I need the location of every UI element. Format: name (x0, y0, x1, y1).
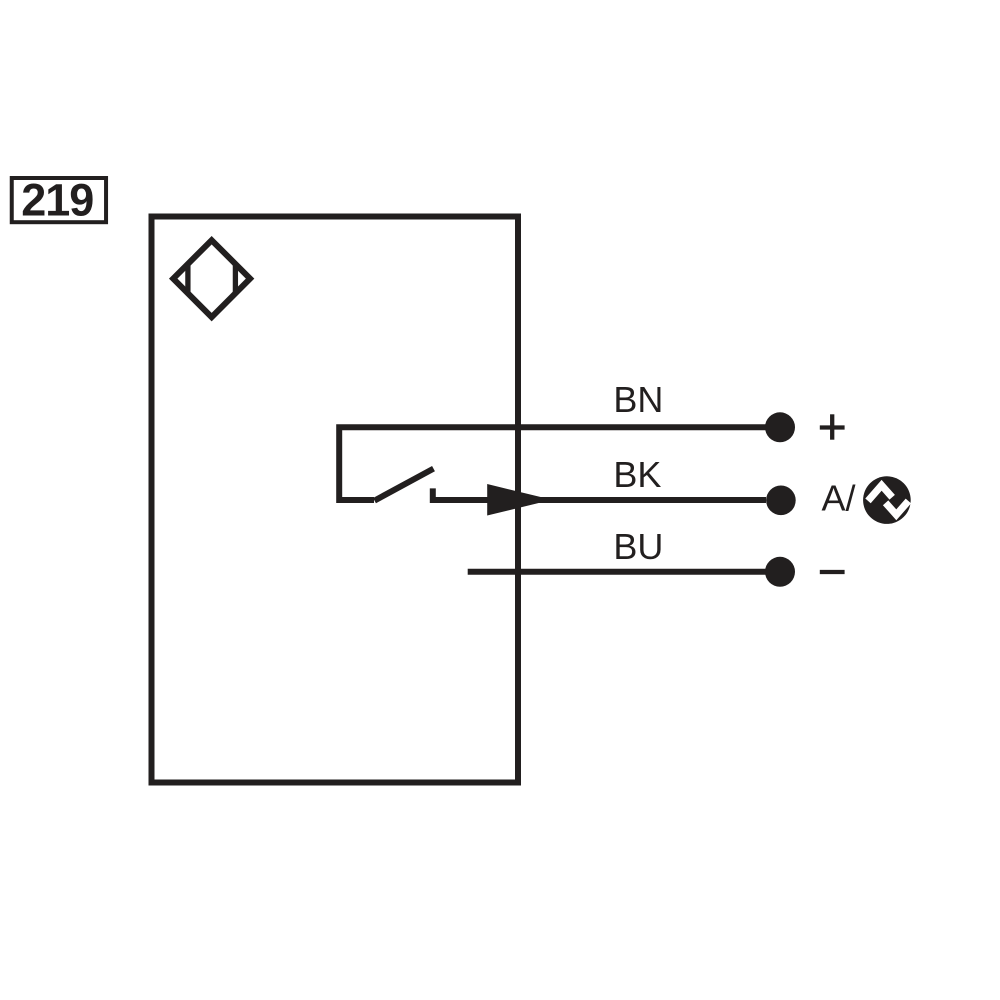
terminal dot BU (765, 557, 795, 587)
terminal dot BN (765, 412, 795, 442)
svg-text:BU: BU (613, 526, 663, 567)
diamond right bar (233, 264, 238, 294)
wire BN (brown) with corner down to switch pivot (339, 427, 766, 500)
sensor body rectangle (152, 217, 519, 783)
terminal dot BK (766, 486, 796, 516)
svg-text:A/: A/ (822, 478, 856, 519)
svg-text:219: 219 (21, 175, 93, 226)
svg-text:BN: BN (613, 379, 663, 420)
switch blade (NO contact, open) (375, 469, 434, 501)
output arrowhead (487, 484, 552, 516)
wire BU (blue) (468, 569, 766, 575)
antivalent output icon (circle with up/down chevrons) (863, 476, 911, 524)
label box 219 (12, 175, 106, 226)
switch fixed contact hook + wire BK (black) (433, 488, 766, 500)
plus terminal label (820, 414, 845, 439)
svg-text:BK: BK (613, 454, 661, 495)
diamond left bar (185, 264, 190, 294)
minus terminal label (820, 570, 845, 574)
sensor symbol diamond (173, 240, 250, 317)
